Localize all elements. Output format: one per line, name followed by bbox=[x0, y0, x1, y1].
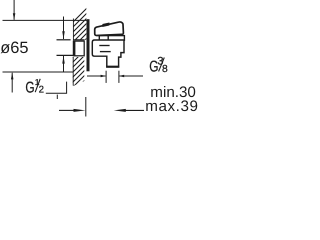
svg-text:max.39: max.39 bbox=[145, 98, 198, 115]
svg-text:2: 2 bbox=[39, 85, 44, 96]
svg-text:ø65: ø65 bbox=[0, 39, 28, 57]
svg-text:8: 8 bbox=[162, 64, 168, 75]
svg-text:G: G bbox=[25, 79, 34, 96]
